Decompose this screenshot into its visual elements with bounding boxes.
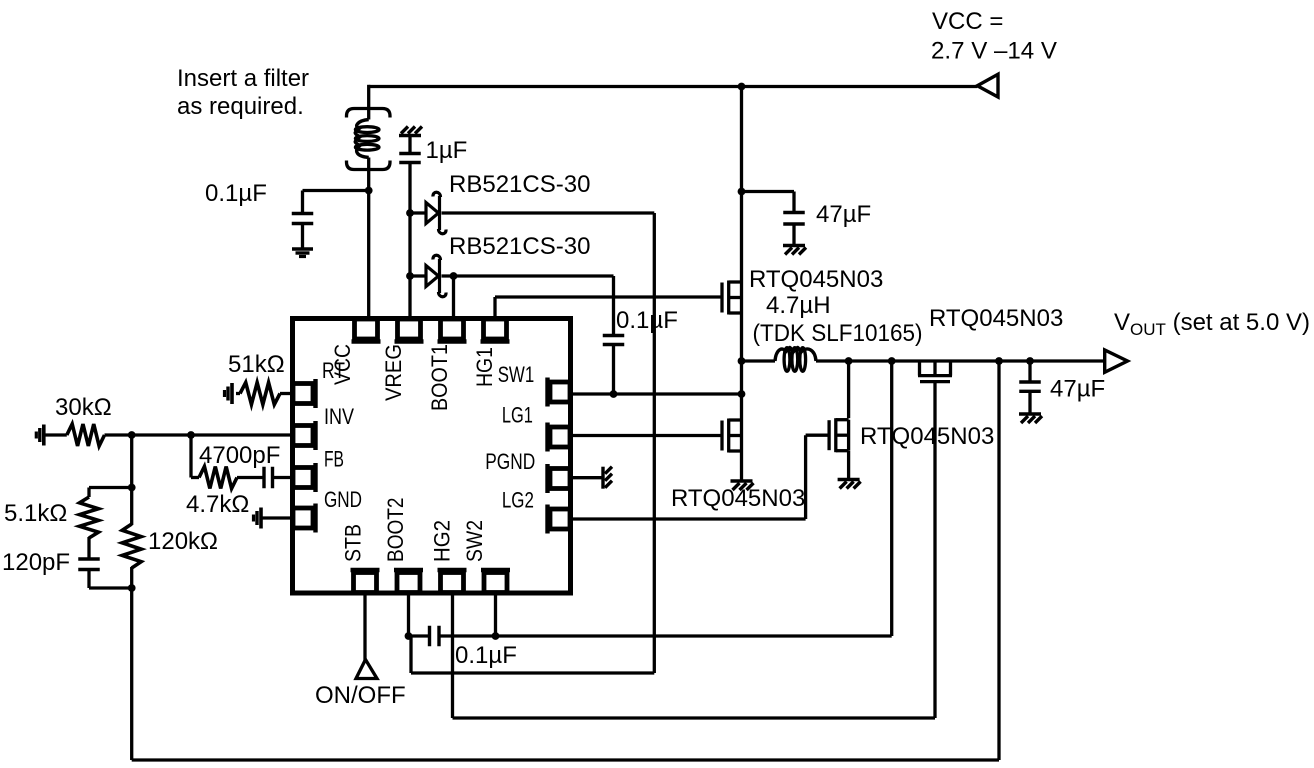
svg-text:PGND: PGND [485,449,535,474]
svg-text:RTQ045N03: RTQ045N03 [860,423,994,450]
label RB521CS-30 (D2) [449,233,590,260]
ground for Q3 [838,480,861,489]
wire 5.1k to 120p [87,537,90,558]
wire SW2 node line [441,634,892,637]
wire VCC to Q1 drain [740,87,743,283]
svg-text:BOOT2: BOOT2 [383,498,408,563]
svg-text:FB: FB [324,447,344,472]
label 51k [228,351,285,378]
svg-text:LG1: LG1 [502,403,533,428]
svg-text:0.1µF: 0.1µF [205,180,267,207]
transistor Q1 RTQ045N03 (high side) [722,281,742,315]
capacitor 0.1uF bootstrap2 [430,626,440,647]
label 4.7k [186,491,249,518]
wire LG1 to Q2 gate [571,434,721,437]
capacitor 120pF [78,559,100,570]
svg-text:SW1: SW1 [498,362,535,387]
wire 4700p to FB [274,476,292,479]
label RTQ045N03 Q4 [929,305,1063,332]
chassis ground above 1uF [399,127,422,136]
label VOUT [1114,309,1310,339]
svg-text:120pF: 120pF [2,549,70,576]
diode D2 RB521CS-30 [426,255,446,297]
svg-text:2.7 V –14 V: 2.7 V –14 V [931,38,1057,65]
wire diode D1 anode [410,211,426,214]
label VCC supply [931,8,1057,65]
capacitor 0.1uF bootstrap1 [603,336,625,345]
pin FB (left) [293,447,344,493]
wire BOOT2 drop [407,593,410,636]
label 0.1uF bootstrap1 [616,307,678,334]
wire feedback left rise [130,435,133,760]
pin SW1 (right) [498,362,570,407]
pin PGND (right) [485,449,570,493]
wire Q3 source to ground [847,451,850,479]
ON/OFF terminal [356,660,377,679]
wire Q1 source to SW node [740,313,743,420]
label 4700pF [199,442,280,469]
wire BOOT2 to cap [409,634,429,637]
label ON/OFF [315,682,406,709]
svg-text:RTQ045N03: RTQ045N03 [749,266,883,293]
svg-text:HG2: HG2 [430,520,455,562]
label 120k [148,528,218,555]
resistor 5.1k [80,497,99,538]
PGND ground [603,467,612,489]
transistor Q3 RTQ045N03 [829,418,849,452]
svg-text:RB521CS-30: RB521CS-30 [449,171,590,198]
pin HG1 (top) [472,319,510,387]
svg-text:STB: STB [341,524,366,562]
ground for 30k [36,425,44,446]
wire BOOT2 loop vertical [653,213,656,673]
svg-text:BOOT1: BOOT1 [427,344,452,411]
svg-text:as required.: as required. [177,93,304,120]
svg-text:4.7µH: 4.7µH [766,292,831,319]
ground for Q2 [731,481,754,490]
filter bracket bottom [347,161,391,170]
label RTQ045N03 Q1 [749,266,883,293]
svg-text:RTQ045N03: RTQ045N03 [671,485,805,512]
inductor 4.7uH [775,348,816,372]
svg-text:47µF: 47µF [816,201,871,228]
ground for 51k [225,383,233,404]
pin VREG (top) [381,319,424,401]
label 47uF input [816,201,871,228]
wire bootstrap1 cap branch [612,276,615,394]
svg-text:VCC =: VCC = [932,8,1003,35]
svg-text:LG2: LG2 [502,488,534,513]
wire Q4 gate drop [933,381,936,718]
capacitor 4700pF [264,467,273,489]
pin INV (left) [293,404,354,450]
ground for GND pin [254,508,262,529]
svg-text:30kΩ: 30kΩ [55,394,112,421]
pin BOOT2 (bottom) [383,498,423,593]
svg-text:GND: GND [324,487,362,512]
label 0.1uF bootstrap2 [455,642,517,669]
pin LG1 (right) [502,403,570,452]
wire output cap branch [1028,361,1031,413]
pin GND (left) [293,487,362,533]
wire 0.1uF filter branch [303,191,371,249]
svg-text:RTQ045N03: RTQ045N03 [929,305,1063,332]
svg-text:RB521CS-30: RB521CS-30 [449,233,590,260]
svg-text:INV: INV [324,404,354,429]
svg-text:RT: RT [322,358,345,383]
pin RT (left) [293,358,345,408]
wire STB drop [363,593,366,661]
pin HG2 (bottom) [430,520,467,593]
diode D1 RB521CS-30 [426,192,446,234]
wire BOOT2 loop bottom [411,636,654,673]
label TDK SLF10165 [753,320,923,347]
pin STB (bottom) [341,524,380,593]
label 1uF [426,137,468,164]
svg-text:0.1µF: 0.1µF [616,307,678,334]
note: insert a filter [177,65,309,120]
label 5.1k [4,500,67,527]
op-amp U1 body (controller IC) [293,319,571,594]
wire 1uF to VREG pin [408,136,411,318]
transistor Q2 RTQ045N03 (low side) [722,419,742,453]
filter bracket top [347,109,391,118]
VCC input terminal [977,74,998,97]
label RTQ045N03 Q3 [860,423,994,450]
resistor 51k [240,383,280,405]
wire RC branch drop [191,435,199,478]
label RB521CS-30 (D1) [449,171,590,198]
wire Q2 source to ground [740,451,743,480]
svg-text:1µF: 1µF [426,137,468,164]
capacitor 0.1uF input filter [292,214,314,224]
wire SW2 drop [494,593,497,636]
wire SW2 node to output [890,361,893,636]
wire divider branch top [89,488,132,498]
wire HG2 route bottom [453,593,936,718]
svg-text:(TDK SLF10165): (TDK SLF10165) [753,320,923,347]
wire diode D2 cathode [442,274,614,277]
capacitor 1uF [399,154,421,163]
resistor 30k [67,424,105,446]
wire filter to VCC pin [367,158,370,319]
wire GND pin [261,516,291,519]
wire filter top drop [367,85,370,120]
label 120pF [2,549,70,576]
ground for 0.1uF filter [292,249,313,257]
wire diode D1 cathode to vertical [442,211,655,214]
svg-text:VREG: VREG [381,344,406,401]
wire SW1 line [571,392,742,395]
svg-text:ON/OFF: ON/OFF [315,682,406,709]
capacitor 47uF output [1019,382,1041,391]
wire HG1 to Q1 gate [495,297,721,318]
wire BOOT1 drop [452,276,455,318]
label 0.1uF input filter [205,180,267,207]
ground for 47uF output [1019,414,1042,423]
label 30k [55,394,112,421]
wire 47uF input branch [742,192,795,245]
pin VCC (top) [330,319,381,385]
wire SW to inductor [742,359,776,362]
label 47uF output [1050,376,1105,403]
wire diode D2 anode [410,274,426,277]
svg-text:4.7kΩ: 4.7kΩ [186,491,249,518]
wire VCC rail [369,85,978,88]
svg-text:51kΩ: 51kΩ [228,351,285,378]
filter inductor L1 [355,120,379,158]
svg-text:120kΩ: 120kΩ [148,528,218,555]
transistor Q4 RTQ045N03 (series) [918,361,952,382]
wire divider branch bottom [89,571,132,589]
svg-text:47µF: 47µF [1050,376,1105,403]
pin SW2 (bottom) [462,520,510,593]
label 4.7uH [766,292,831,319]
svg-text:HG1: HG1 [472,347,497,387]
wire inductor to VOUT [816,359,1105,362]
VOUT terminal [1105,350,1128,372]
wire 30k to INV [44,433,291,436]
capacitor 47uF input [783,213,805,225]
svg-text:Insert a filter: Insert a filter [177,65,309,92]
svg-text:0.1µF: 0.1µF [455,642,517,669]
wire LG2 to Q3 gate [571,435,828,519]
resistor 4.7k [199,467,237,489]
wire PGND stub [571,476,602,479]
wire feedback right drop [997,361,1000,760]
wire Q3 drain [847,361,850,418]
pin LG2 (right) [502,488,570,534]
svg-text:5.1kΩ: 5.1kΩ [4,500,67,527]
pin BOOT1 (top) [427,319,467,411]
wire RT [236,392,291,395]
svg-text:SW2: SW2 [462,520,487,562]
wire feedback bottom rail [132,758,999,761]
wire 4.7k to 4700p [237,476,263,479]
svg-text:4700pF: 4700pF [199,442,280,469]
label RTQ045N03 Q2 [671,485,805,512]
svg-text:VOUT (set at 5.0 V): VOUT (set at 5.0 V) [1114,309,1310,339]
ground for 47uF input [783,246,806,255]
resistor 120k [122,524,141,568]
